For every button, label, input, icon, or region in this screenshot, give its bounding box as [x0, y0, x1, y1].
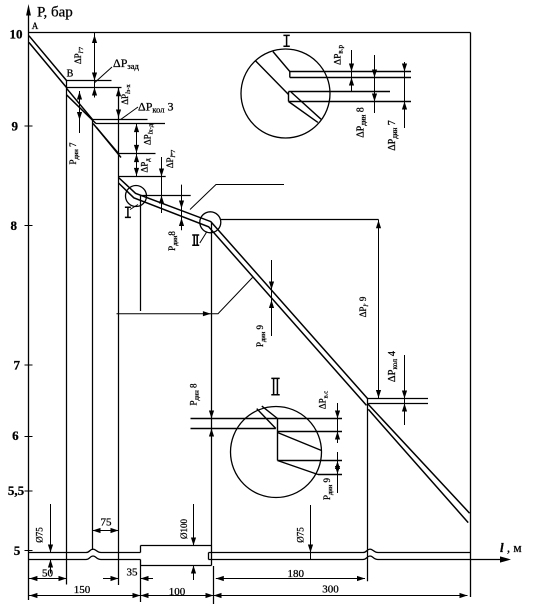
svg-text:8: 8 — [10, 218, 17, 233]
svg-text:9: 9 — [11, 119, 18, 134]
svg-text:10: 10 — [10, 27, 23, 42]
svg-text:100: 100 — [169, 586, 186, 598]
svg-text:Ø75: Ø75 — [296, 527, 306, 543]
svg-text:А: А — [32, 21, 39, 31]
svg-text:300: 300 — [322, 584, 339, 596]
svg-text:7: 7 — [14, 358, 21, 373]
svg-text:6: 6 — [12, 428, 19, 443]
svg-text:В: В — [67, 69, 74, 80]
svg-text:50: 50 — [42, 568, 54, 580]
svg-text:5,5: 5,5 — [8, 483, 25, 498]
svg-text:Ø100: Ø100 — [179, 519, 189, 539]
svg-text:75: 75 — [101, 517, 113, 529]
svg-text:180: 180 — [288, 568, 305, 580]
svg-text:5: 5 — [14, 543, 21, 558]
svg-text:Р, бар: Р, бар — [37, 5, 73, 21]
svg-text:35: 35 — [127, 567, 139, 579]
svg-text:150: 150 — [74, 584, 91, 596]
svg-text:l , м: l , м — [500, 540, 522, 555]
svg-text:Ø75: Ø75 — [35, 527, 45, 543]
